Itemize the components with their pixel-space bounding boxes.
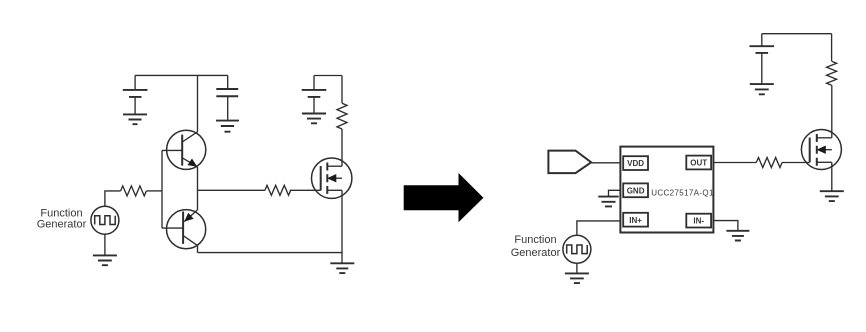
pin IN- — [686, 214, 711, 228]
wire R4 to rail — [831, 34, 833, 61]
label Function Generator right — [511, 234, 561, 259]
wire FG1 up — [105, 191, 121, 206]
battery BT1 — [123, 90, 148, 97]
wire bottom rail — [198, 252, 343, 254]
svg-text:Function: Function — [514, 234, 556, 246]
transistor Q2 PNP — [162, 210, 206, 249]
svg-text:UCC27517A-Q1: UCC27517A-Q1 — [651, 189, 714, 198]
function generator FG1 — [91, 206, 119, 234]
pin OUT — [686, 156, 711, 170]
wire battery BT1 lead — [134, 75, 136, 114]
pin VDD — [623, 156, 648, 170]
wire R1 to base rail — [147, 190, 163, 192]
wire battery BT3 lead — [761, 34, 763, 84]
ground for M1 source — [330, 263, 354, 273]
wire M2 source down — [831, 162, 833, 191]
svg-text:GND: GND — [627, 186, 645, 195]
label Function Generator left — [37, 207, 87, 230]
wire R3 to rail — [341, 76, 343, 104]
wire pentagon to VDD — [591, 162, 620, 164]
resistor R4 — [827, 61, 837, 85]
wire top rail right of left circuit — [314, 75, 342, 77]
wire output to R2 — [198, 189, 265, 191]
wire M1 drain up — [341, 129, 343, 166]
pin GND — [623, 183, 648, 197]
pin IN+ — [623, 213, 648, 227]
wire top rail right circuit — [762, 33, 832, 35]
resistor R1 — [121, 186, 147, 196]
wire M2 drain up — [831, 85, 833, 138]
ground for M2 source — [820, 191, 844, 201]
ground for C1 — [216, 121, 239, 132]
svg-text:Function: Function — [40, 207, 82, 219]
svg-text:Generator: Generator — [37, 219, 87, 231]
wire capacitor C1 lead — [227, 75, 229, 120]
transistor Q1 NPN — [162, 130, 206, 169]
battery BT3 — [750, 46, 775, 53]
capacitor C1 — [216, 89, 238, 96]
wire IN- to ground — [713, 221, 738, 231]
connector input pentagon — [548, 151, 591, 174]
wire FG1 down — [104, 234, 106, 255]
MOSFET M1 — [312, 158, 352, 198]
wire PNP collector down — [197, 245, 199, 252]
ground for FG2 — [565, 273, 589, 283]
svg-text:OUT: OUT — [690, 159, 707, 168]
resistor R5 — [756, 158, 782, 168]
wire R2 to gate — [290, 189, 321, 191]
resistor R2 — [265, 185, 291, 195]
wire GND pin to ground — [609, 190, 621, 196]
ground for FG1 — [93, 255, 117, 265]
svg-text:VDD: VDD — [627, 159, 644, 168]
wire OUT to R5 — [713, 162, 756, 164]
IC U1 UCC27517A-Q1 — [620, 147, 713, 233]
wire battery BT2 lead — [313, 76, 315, 113]
ground for IN- — [726, 231, 749, 241]
wire FG2 down — [576, 263, 578, 273]
wire emitter rail — [197, 167, 199, 210]
svg-text:IN-: IN- — [693, 217, 704, 226]
svg-text:Generator: Generator — [511, 247, 561, 259]
wire top rail left circuit — [135, 74, 228, 76]
MOSFET M2 — [801, 130, 841, 170]
ground for BT1 — [123, 114, 147, 124]
ground for BT2 — [302, 114, 326, 124]
wire R5 to gate M2 — [782, 162, 810, 164]
battery BT2 — [302, 90, 327, 97]
ground for GND pin — [598, 197, 618, 207]
wire IN+ to FG2 — [577, 221, 621, 235]
wire base rail — [161, 150, 163, 228]
resistor R3 — [337, 103, 347, 129]
function generator FG2 — [563, 235, 591, 263]
svg-text:IN+: IN+ — [629, 216, 642, 225]
wire collector rail — [197, 75, 199, 131]
ground for BT3 — [750, 84, 774, 94]
wire M1 source down — [341, 190, 343, 262]
arrow big — [404, 173, 484, 222]
